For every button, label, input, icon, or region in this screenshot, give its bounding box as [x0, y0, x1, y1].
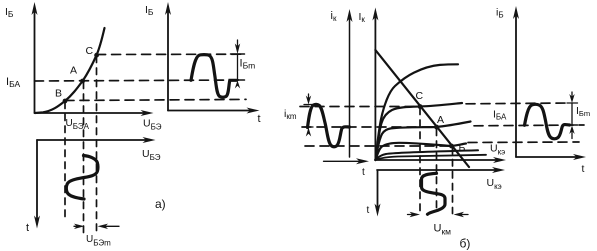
label iB (far-right) [496, 7, 504, 20]
iB(t) sine wave (middle graph) [191, 55, 237, 98]
svg-text:С: С [86, 45, 94, 57]
dashed bottom level (far-right) [468, 141, 579, 144]
tick at mean level (ikm) [304, 126, 313, 128]
label IBm (middle) [240, 58, 256, 71]
dashed level line C (right section) [300, 106, 417, 108]
axis UBE horizontal (left graph a) [35, 110, 154, 116]
dashed level line B(Б) (right section) [305, 145, 449, 147]
output curve c5 [375, 150, 478, 160]
svg-text:t: t [258, 113, 261, 125]
label t (lower-right axis) [367, 205, 370, 216]
label IBA (far-right) [493, 109, 507, 122]
dashed top level (far-right) [466, 102, 570, 105]
iB(t) sine wave (far-right) [525, 104, 570, 138]
uKE(t) waveform (lower-right) [422, 173, 446, 214]
label B(Б) (output) [459, 142, 466, 154]
label UKm [434, 223, 452, 237]
svg-text:t: t [26, 222, 29, 234]
axis t downward (lower-left graph) [34, 140, 40, 229]
svg-text:б): б) [460, 237, 471, 251]
label C [86, 45, 94, 57]
axis t small arrow under ik waveform [324, 158, 370, 164]
dashed level line B (y=99) [65, 99, 246, 100]
axis t horizontal (far-right graph) [516, 154, 586, 160]
svg-text:t: t [362, 167, 365, 178]
output curve c3 through A [375, 122, 470, 161]
dimension arrow right (UBEm) [98, 224, 120, 229]
label t (lower-left axis) [26, 222, 29, 234]
dimension span line (IBm) [237, 54, 239, 80]
label UBE (left graph axis) [143, 118, 162, 132]
dimension arrow left (UBEm) [74, 224, 85, 229]
label A [70, 65, 77, 77]
svg-text:А: А [70, 65, 77, 77]
dimension up-arrow below mean level (IBm) [235, 81, 240, 89]
label IB (middle graph) [145, 4, 154, 17]
dimension down-arrow (IBm far-right) [567, 92, 578, 103]
label C (output) [416, 90, 424, 102]
output curve c6 [375, 155, 486, 160]
svg-text:Б: Б [459, 142, 466, 154]
svg-text:а): а) [155, 197, 166, 211]
axis IB vertical (middle graph) [165, 2, 171, 111]
point B dot [63, 99, 68, 104]
dashed level line C (y=54) from C to middle dimension [97, 53, 245, 55]
point C dot (output) [418, 104, 423, 109]
label b) [460, 237, 471, 251]
axis UKE horizontal (lower time graph) [377, 167, 505, 173]
svg-text:С: С [416, 90, 424, 102]
label IBm (far-right) [576, 105, 590, 118]
dimension down-arrow above top level (IBm) [235, 40, 240, 54]
axis UBE horizontal (lower-left graph) [37, 137, 156, 143]
label t (middle graph) [258, 113, 261, 125]
dashed vertical at B x=65 [64, 102, 66, 222]
label UBEm [86, 234, 111, 248]
dashed level line A / IBA (y=80) [35, 80, 245, 81]
svg-text:t: t [582, 163, 585, 175]
output curve c1 [375, 64, 458, 160]
label UBE (lower-left axis) [142, 148, 161, 162]
tick at mean level (IBm) [231, 79, 245, 81]
svg-text:t: t [367, 205, 370, 216]
axis UKE horizontal (output graph) [375, 157, 506, 163]
ik(t) waveform left of ik axis [308, 104, 350, 146]
uBE(t) sine wave (lower-left) [66, 156, 98, 200]
svg-text:А: А [437, 114, 444, 126]
tick at mean level (IBm far-right) [567, 124, 578, 126]
label B [55, 88, 62, 100]
axis ik vertical (small, left of IK axis) [347, 9, 353, 157]
dimension up-arrow (ikm bottom) [306, 128, 311, 137]
svg-text:В: В [55, 88, 62, 100]
point A dot [80, 79, 85, 84]
point C dot [94, 53, 99, 58]
dashed vertical at C (right section) [419, 108, 421, 212]
dimension span line (IBm far-right) [571, 103, 573, 125]
label a) [155, 197, 166, 211]
input characteristic curve [35, 28, 105, 113]
label ik [331, 10, 337, 23]
label IB (left graph) [5, 6, 14, 19]
label t (under ik waveform) [362, 167, 365, 178]
load line [375, 50, 469, 167]
dimension up-arrow (IBm far-right) [569, 126, 574, 135]
label A (output) [437, 114, 444, 126]
axis t horizontal (middle graph) [168, 108, 260, 114]
dimension arrow right (UKm) [454, 212, 469, 217]
label UKE (lower) [487, 177, 502, 191]
dimension arrow left (UKm) [408, 212, 421, 217]
axis t downward (lower-right graph) [375, 171, 381, 217]
axis iB vertical (far-right graph) [513, 6, 519, 157]
dashed vertical at B(Б) (right section) [452, 148, 454, 214]
label IBA (left graph) [6, 76, 20, 89]
label t (far-right) [582, 163, 585, 175]
output curve c2 through C [375, 103, 462, 160]
label UKE (upper) [490, 143, 505, 157]
dimension down-arrow (ikm top) [304, 94, 313, 105]
label ikm [284, 108, 297, 121]
axis IB vertical (left graph a) [32, 2, 38, 113]
tick at top level (IBm) [231, 53, 245, 55]
dashed level line A (right section) [302, 126, 434, 128]
output curve c4 through B(Б) [375, 143, 466, 160]
point A dot (output) [434, 125, 439, 130]
point B(Б) dot (output) [449, 144, 454, 149]
dashed vertical at A x=83.5 [83, 82, 85, 233]
axis IK vertical (output graph) [372, 8, 378, 161]
label IK [359, 11, 366, 24]
label UBEA under axis [66, 118, 90, 131]
dashed mean level IBA (far-right) [474, 124, 584, 127]
dashed vertical at A (right section) [436, 129, 438, 212]
dashed vertical at C x=96.5 [96, 56, 98, 233]
